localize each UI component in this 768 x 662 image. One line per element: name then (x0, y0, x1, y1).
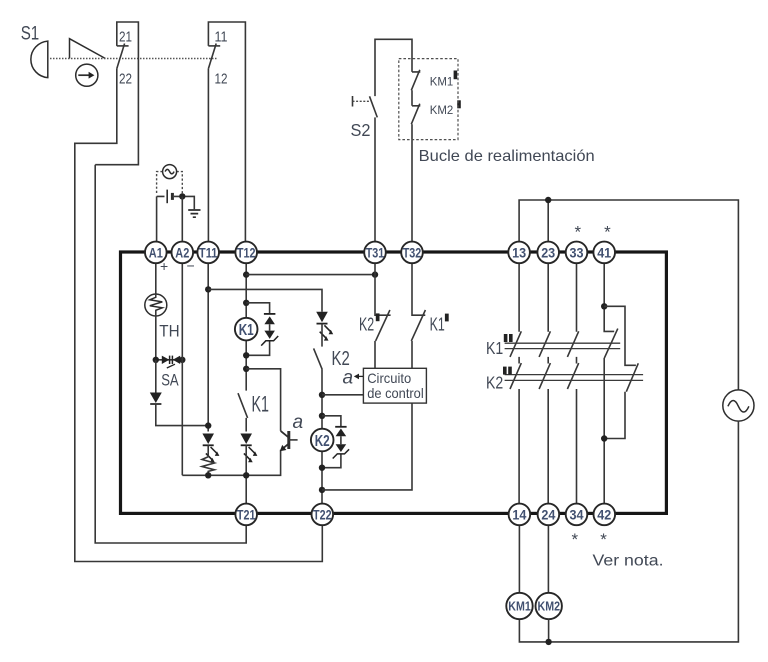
right side wire AC to bottom rail (519, 421, 738, 642)
K2 mechanical link lines (505, 375, 643, 381)
svg-text:a: a (343, 368, 354, 389)
svg-text:*: * (572, 530, 579, 549)
switch S1 contact 11-12 frame (208, 22, 245, 243)
terminal T22 (312, 504, 334, 526)
feedback contact KM1 (411, 70, 420, 106)
control circuit box (363, 368, 426, 403)
T32 column upper (412, 262, 425, 315)
terminal 14 (509, 504, 531, 526)
LED indicator on T11 column (202, 434, 214, 445)
svg-text:22: 22 (119, 72, 132, 88)
junction on battery wire (179, 193, 185, 199)
svg-text:*: * (604, 222, 611, 241)
junction SA-T11 (205, 422, 211, 428)
mechanical link dotted line (50, 58, 217, 60)
K1 mechanical link lines (505, 343, 621, 348)
wire 21 to T22 route (75, 69, 322, 562)
junction A2-SA (179, 357, 185, 363)
pushbutton S2 actuator (352, 96, 354, 107)
svg-text:11: 11 (215, 29, 228, 45)
wire LED to bottom rail (245, 445, 247, 505)
external supply AC circle (163, 165, 177, 179)
junction 42 branch bottom (601, 435, 607, 441)
svg-text:K1: K1 (239, 322, 254, 339)
junction bottom rail (545, 639, 551, 645)
svg-text:S1: S1 (21, 24, 40, 45)
svg-text:K2: K2 (315, 433, 330, 450)
terminal T12 (235, 242, 257, 264)
wire supply to A2 (181, 196, 183, 243)
rail2 T11 to K2 branch (208, 289, 322, 311)
terminal 13 (508, 242, 530, 264)
wire T12 column (245, 262, 247, 391)
svg-text:KM1: KM1 (430, 74, 454, 88)
SA suppressor horizontal wire (156, 359, 183, 361)
svg-text:41: 41 (597, 244, 611, 260)
transistor branch top wire (246, 369, 280, 431)
svg-text:T22: T22 (313, 506, 332, 522)
feedback contact KM2 (411, 104, 420, 243)
svg-text:T11: T11 (199, 244, 218, 260)
svg-text:14: 14 (512, 506, 526, 522)
rail1 T12 to T31 (246, 274, 375, 276)
K2 coil suppressor branch (322, 416, 341, 468)
wire 14 to KM1 (518, 524, 520, 593)
svg-text:KM2: KM2 (538, 599, 561, 614)
svg-text:*: * (575, 222, 582, 241)
svg-text:24: 24 (541, 506, 555, 522)
junction T31 rail1 (372, 271, 378, 277)
wire S2 to T31 (374, 117, 376, 243)
junction T22 link (319, 487, 325, 493)
junction T12 rail1 (243, 271, 249, 277)
junction K2 coil bottom (319, 465, 325, 471)
terminal T21 (235, 504, 257, 526)
K1 coil (235, 318, 258, 341)
junction T11 rail2 (205, 286, 211, 292)
direct opening action symbol (circle with arrow) (76, 64, 98, 86)
wire KM2 to bottom rail (548, 619, 550, 642)
junction transistor section top (243, 366, 249, 372)
start button S2 branch bridge (375, 39, 412, 96)
terminal T31 (364, 242, 386, 264)
terminal 34 (566, 504, 588, 526)
svg-text:34: 34 (570, 506, 584, 522)
K1 contact lever (238, 393, 248, 418)
svg-text:KM2: KM2 (430, 103, 454, 117)
junction A1-SA (153, 357, 159, 363)
wire A2 column down (181, 262, 183, 476)
junction 41 branch top (601, 303, 607, 309)
svg-text:T32: T32 (403, 244, 422, 260)
wire K1 aux to control box (411, 341, 413, 368)
junction K1 coil top (243, 300, 249, 306)
junction T12col bottom rail (243, 472, 249, 478)
pushbutton S2 lever (370, 96, 378, 117)
external supply dashed leads (157, 172, 183, 194)
svg-text:K1: K1 (252, 392, 270, 417)
wire to control box (322, 394, 363, 396)
K2 branch LED (316, 312, 328, 323)
svg-text:K1: K1 (430, 315, 445, 335)
svg-text:Circuito: Circuito (367, 371, 411, 386)
svg-text:S2: S2 (351, 120, 371, 140)
junction K2 coil top (319, 413, 325, 419)
junction T11 bottom rail (205, 472, 211, 478)
svg-text:12: 12 (215, 72, 228, 88)
svg-text:TH: TH (159, 322, 179, 341)
battery symbol (157, 196, 195, 209)
contactor coil KM2 (536, 593, 562, 619)
terminal 24 (538, 504, 560, 526)
svg-text:33: 33 (570, 244, 584, 260)
terminal 41 (593, 242, 615, 264)
svg-text:T12: T12 (237, 244, 256, 260)
svg-text:23: 23 (541, 244, 555, 260)
svg-text:K2: K2 (359, 315, 374, 335)
footnote square K2 aux (376, 313, 380, 321)
T31 column upper (375, 262, 391, 315)
column 41-42 main with K1 NC contact (604, 262, 618, 505)
wire K2 branch to T32 column (322, 403, 412, 490)
wire LED to K2 contact (321, 324, 323, 347)
wire T31 to control box (374, 341, 376, 368)
junction K1 coil bottom (243, 352, 249, 358)
K1 aux contact lever (411, 310, 425, 341)
svg-text:T21: T21 (237, 506, 256, 522)
wire 23 to rail (547, 200, 549, 243)
sensor S1 head (half-disc) (31, 41, 48, 78)
junction K2 control wire (319, 392, 325, 398)
terminal 23 (537, 242, 559, 264)
wire K2 contact down (321, 369, 323, 505)
footnote square KM2 (457, 100, 461, 108)
svg-text:42: 42 (597, 506, 611, 522)
wire supply to A1 (156, 196, 158, 243)
K2 coil (311, 429, 334, 452)
thermal element TH (145, 294, 167, 316)
top feed rail (519, 200, 738, 390)
junction rail 23 (545, 197, 551, 203)
svg-text:21: 21 (119, 29, 132, 45)
footnote square KM1 (454, 71, 458, 80)
svg-text:A1: A1 (149, 244, 163, 260)
column 13-14 (510, 262, 521, 505)
main unit box (121, 252, 667, 513)
wire 12 to T11 (207, 69, 209, 243)
K2 NC contact branch (604, 306, 638, 438)
svg-text:Bucle de realimentación: Bucle de realimentación (419, 148, 595, 165)
contact 21-22 fixed tick (117, 45, 129, 47)
AC source circle (723, 390, 754, 421)
footnote squares K1 row (504, 334, 508, 342)
SA back-to-back diodes (162, 356, 170, 364)
svg-text:KM1: KM1 (508, 599, 531, 614)
svg-text:K2: K2 (486, 373, 503, 393)
feedback loop dashed box (399, 59, 458, 140)
terminal T11 (197, 242, 219, 264)
K1 coil suppressor branch (246, 303, 269, 356)
contact 21-22 lever (117, 44, 125, 69)
contactor coil KM1 (506, 593, 532, 619)
SA diode (150, 393, 162, 404)
footnote square K1 aux (445, 314, 449, 322)
svg-text:T31: T31 (366, 244, 385, 260)
svg-text:A2: A2 (175, 244, 189, 260)
column 23-24 (539, 262, 550, 505)
terminal 33 (566, 242, 588, 264)
wire SA node down (155, 360, 157, 393)
svg-text:SA: SA (161, 371, 179, 390)
K2 contact lever (314, 348, 323, 369)
K2 aux contact lever (376, 310, 390, 341)
svg-text:Ver nota.: Ver nota. (593, 553, 664, 570)
terminal 42 (594, 504, 616, 526)
ground symbol (188, 210, 200, 217)
contact 11-12 lever (208, 44, 216, 69)
resistor zigzag on T11 column (202, 445, 214, 475)
wire T11 column (207, 262, 209, 432)
footnote squares K2 row (503, 367, 507, 375)
terminal A1 (145, 242, 167, 264)
svg-text:de control: de control (367, 386, 424, 401)
wire 22 to T21 route (95, 165, 246, 543)
wire A1 to TH (155, 262, 157, 294)
wire 24 to KM2 (547, 524, 549, 593)
wire K1 contact to LED (245, 418, 247, 432)
svg-text:K1: K1 (486, 338, 503, 358)
svg-text:13: 13 (512, 244, 526, 260)
sensor S1 actuator cam (triangle) (70, 39, 106, 59)
svg-text:K2: K2 (332, 347, 350, 370)
wire SA diode to T11 column (156, 404, 208, 426)
internal bottom rail (182, 450, 280, 476)
svg-text:*: * (600, 530, 607, 549)
switch S1 contact 21-22 frame (95, 22, 138, 165)
column 33-34 (567, 262, 578, 505)
LED indicator on T12 column (240, 434, 252, 445)
terminal T32 (401, 242, 423, 264)
contact 11-12 fixed tick (208, 45, 220, 47)
terminal A2 (172, 242, 194, 264)
transistor Q1 (281, 431, 289, 437)
wire TH to SA node (155, 316, 157, 360)
svg-text:a: a (293, 412, 304, 433)
